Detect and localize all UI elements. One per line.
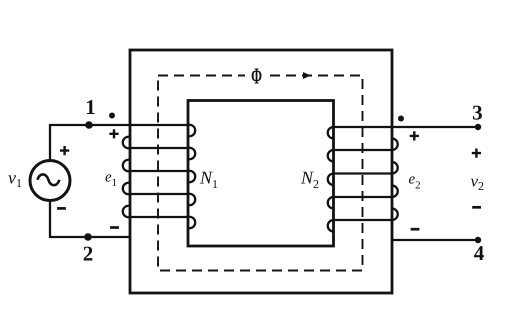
wire: terminal 2 to core xyxy=(50,236,130,238)
svg-text:e2: e2 xyxy=(409,172,421,192)
node 2 junction dot xyxy=(84,233,92,241)
svg-text:v2: v2 xyxy=(471,172,485,194)
svg-text:N1: N1 xyxy=(199,168,218,192)
svg-text:3: 3 xyxy=(472,101,483,125)
source sine symbol xyxy=(38,174,60,185)
svg-text:v1: v1 xyxy=(8,168,22,191)
primary polarity dot xyxy=(109,113,115,119)
output polarity + xyxy=(472,149,481,158)
flux direction arrow xyxy=(303,72,311,79)
secondary winding + xyxy=(410,131,419,140)
wire: left branch vertical upper xyxy=(49,124,51,161)
svg-text:4: 4 xyxy=(474,241,485,265)
wire: terminal 1 to primary winding xyxy=(50,124,188,126)
wire: secondary to terminal 4 xyxy=(392,239,478,241)
node 1 junction dot xyxy=(85,121,93,129)
svg-text:1: 1 xyxy=(85,95,96,119)
flux path (dashed) xyxy=(158,76,363,271)
output polarity minus xyxy=(472,206,481,209)
primary winding minus xyxy=(110,226,119,229)
wire: secondary to terminal 3 xyxy=(334,126,479,128)
source polarity minus xyxy=(57,207,66,210)
secondary winding N2 xyxy=(328,127,398,232)
secondary winding minus xyxy=(411,228,420,231)
svg-text:N2: N2 xyxy=(300,168,319,192)
secondary polarity dot xyxy=(398,116,404,122)
white gap for flux label xyxy=(245,65,267,85)
primary winding + xyxy=(109,129,118,138)
transformer core outer edge xyxy=(130,50,392,293)
svg-text:2: 2 xyxy=(83,241,94,265)
source vt circle xyxy=(30,161,70,201)
source polarity + xyxy=(60,146,69,155)
core window inner edge xyxy=(188,101,334,247)
svg-text:e1: e1 xyxy=(105,170,117,190)
node 3 terminal dot xyxy=(475,124,481,130)
svg-text:Φ: Φ xyxy=(251,63,262,88)
primary winding N1 xyxy=(123,125,195,228)
wire: left branch vertical lower xyxy=(49,200,51,238)
node 4 terminal dot xyxy=(475,237,481,243)
